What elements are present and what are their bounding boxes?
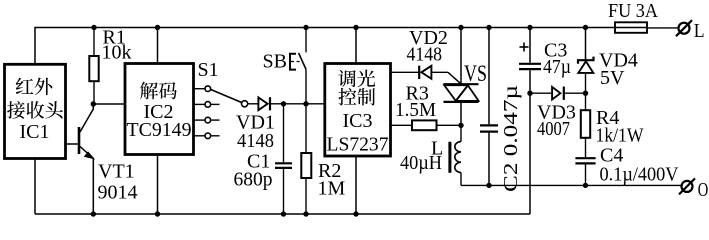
wire: C4 to output wire <box>585 165 587 186</box>
switch S1 contact 2 <box>205 102 211 108</box>
wire: IC2 pin stub row 4 <box>194 135 206 137</box>
switch S1 common pole <box>242 101 248 107</box>
terminal L circle <box>679 23 690 34</box>
wire: inductor to output wire <box>460 173 462 186</box>
svg-text:47µ: 47µ <box>543 56 571 78</box>
wire: triac to R3 node <box>460 102 462 125</box>
wire: SB to node <box>305 69 307 104</box>
resistor R1 <box>93 28 95 57</box>
inductor L core bar <box>448 142 451 173</box>
node: C2 top <box>486 25 491 30</box>
wire: node to inductor <box>460 125 462 141</box>
pushbutton SB actuator bracket <box>290 54 296 70</box>
svg-text:40µH: 40µH <box>400 152 442 174</box>
svg-text:VT1: VT1 <box>98 161 135 183</box>
label text "调光" (IC3 dim-light) <box>338 70 375 88</box>
resistor R4 <box>585 93 587 110</box>
transistor VT1 emitter <box>80 147 93 159</box>
thyristor VS bottom bar <box>444 101 479 103</box>
svg-text:L: L <box>694 20 705 42</box>
node: VD4 top <box>583 25 588 30</box>
capacitor C2 <box>488 28 490 125</box>
transistor VT1 emitter arrow <box>85 152 94 159</box>
node: VD1/C1 junction <box>281 101 286 106</box>
node: R3/triac/L junction <box>458 123 463 128</box>
diode VD2 cathode bar <box>418 66 420 79</box>
node: C2 bottom <box>486 183 491 188</box>
diode VD1 cathode bar <box>269 97 271 110</box>
node: SB top <box>303 25 308 30</box>
op-amp U? : IC1 infrared receiver box <box>5 64 66 158</box>
transistor VT1 base bar <box>78 127 81 154</box>
switch S1 contact 4 <box>205 133 211 139</box>
svg-text:680p: 680p <box>234 169 273 191</box>
label text "接收头" (IC1 receiver-head) <box>7 101 63 119</box>
wire: VD2 to triac gate <box>431 71 448 73</box>
wire: top rail to VD4 <box>585 28 587 61</box>
thyristor VS top bar <box>444 83 479 85</box>
wire: IC2 pin stub row 1 <box>194 88 206 90</box>
wire: C3 node to VD3 <box>530 92 552 94</box>
resistor R3 <box>412 120 437 130</box>
wire: left vertical from top rail to IC1 top pin <box>34 27 36 65</box>
svg-text:10k: 10k <box>102 42 132 64</box>
node: C1 ground <box>281 211 286 216</box>
diode VD2 triangle <box>421 66 431 79</box>
wire: output line to terminal O <box>461 184 682 186</box>
wire: fuse to terminal L <box>647 27 679 29</box>
terminal O circle <box>682 181 693 192</box>
capacitor C4 plates <box>575 157 595 159</box>
inductor L coil <box>455 142 461 173</box>
wire: triac gate diagonal <box>448 72 461 84</box>
node: IC2 top pin <box>155 25 160 30</box>
wire: S1 contact 2 stub <box>211 103 220 105</box>
node: R1/collector/IC2 junction <box>91 101 96 106</box>
capacitor C1 plates <box>275 162 292 164</box>
wire: top rail to SB <box>305 28 307 53</box>
wire: node to IC3 left edge <box>306 103 325 105</box>
wire: IC2 top pin <box>157 28 159 64</box>
node: R2 ground <box>303 211 308 216</box>
svg-text:C2 0.047µ: C2 0.047µ <box>500 85 522 192</box>
terminal L slash <box>676 20 692 36</box>
wire: IC2 pin stub row 3 <box>194 119 206 121</box>
wire: emitter to bottom rail <box>92 158 94 214</box>
zener VD4 bar with hooks <box>578 57 594 64</box>
pushbutton SB dashed link <box>291 61 302 63</box>
svg-text:S1: S1 <box>198 59 219 81</box>
IC U2: decoder IC2 TC9149 box <box>125 64 194 155</box>
pushbutton SB arm <box>299 53 306 69</box>
capacitor C3 plates <box>519 63 541 65</box>
svg-text:1k/1W: 1k/1W <box>596 125 644 147</box>
svg-text:4148: 4148 <box>237 130 274 152</box>
svg-text:5V: 5V <box>600 67 625 89</box>
wire: bottom ground rail <box>35 213 530 215</box>
svg-text:9014: 9014 <box>98 182 138 204</box>
svg-text:TC9149: TC9149 <box>127 119 192 141</box>
node: VD4/VD3/R4 junction <box>583 91 588 96</box>
fuse FU rect <box>615 22 647 33</box>
wire: VD1 to node <box>270 103 284 105</box>
svg-text:0.1µ/400V: 0.1µ/400V <box>600 164 680 186</box>
switch S1 arm <box>211 90 242 103</box>
wire: IC3 top pin <box>355 28 357 64</box>
svg-text:4148: 4148 <box>407 44 443 66</box>
svg-text:1M: 1M <box>318 178 346 200</box>
node: R1 top <box>91 25 96 30</box>
wire: VD3 to zener line <box>564 92 586 94</box>
IC U3: dimmer control IC3 LS7237 box <box>325 64 391 157</box>
wire: S1 contact 4 stub <box>211 135 220 137</box>
thyristor VS left triangle <box>444 85 468 101</box>
wire: IC3 bottom pin <box>355 156 357 214</box>
wire: node to node <box>284 103 307 105</box>
zener VD4 triangle <box>578 61 593 73</box>
wire: IC2 pin stub row 2 <box>194 103 206 105</box>
label text "红外" (IC1 red-outer) <box>16 78 53 96</box>
node: C4 output junction <box>583 183 588 188</box>
wire: top rail to triac <box>460 28 462 85</box>
wire: IC3 to R3 <box>391 124 413 126</box>
node: IC3 top pin <box>353 25 358 30</box>
label text "解码" (IC2 decode) <box>140 82 177 100</box>
node: C3 top <box>527 25 532 30</box>
switch S1 contact 1 <box>205 86 211 92</box>
wire: top rail down to C3 <box>529 28 531 63</box>
svg-text:FU 3A: FU 3A <box>608 0 659 22</box>
node: SB/R2 junction <box>303 101 308 106</box>
wire: top supply rail <box>35 27 615 29</box>
wire: S1 contact 3 stub <box>211 119 220 121</box>
svg-text:IC1: IC1 <box>20 121 50 143</box>
wire: VD4 to node <box>585 73 587 93</box>
wire: through fuse <box>615 27 647 29</box>
wire: junction to IC2 left edge <box>93 103 125 105</box>
diode VD1 triangle <box>258 97 267 110</box>
svg-text:SB: SB <box>263 51 287 73</box>
node: C3/VD3 junction <box>527 91 532 96</box>
diode VD3 triangle <box>552 87 560 100</box>
thyristor VS right triangle <box>456 85 479 101</box>
wire: IC1 bottom pin to bottom rail <box>34 159 36 215</box>
switch S1 contact 3 <box>205 117 211 123</box>
transistor VT1 base lead <box>66 143 80 145</box>
wire: C3 to bottom rail (crosses output wire) <box>529 70 531 214</box>
resistor R2 <box>305 104 307 153</box>
svg-text:4007: 4007 <box>537 118 570 140</box>
capacitor C3 plus sign <box>520 46 529 48</box>
wire: IC2 bottom pin <box>157 155 159 215</box>
diode VD3 cathode bar <box>563 87 565 100</box>
svg-text:VS: VS <box>464 61 487 86</box>
svg-text:LS7237: LS7237 <box>327 134 389 156</box>
wire: C1 to bottom rail <box>283 169 285 214</box>
node: triac top <box>458 25 463 30</box>
label text "控制" (IC3 control) <box>338 88 375 106</box>
node: IC3 ground <box>353 211 358 216</box>
node: IC2 ground pin dot <box>155 211 160 216</box>
svg-text:IC3: IC3 <box>343 110 373 132</box>
wire: IC3 to VD2 <box>391 71 419 73</box>
svg-text:O: O <box>698 179 709 201</box>
wire: S1 pole to VD1 <box>248 103 259 105</box>
transistor VT1 collector <box>80 104 93 132</box>
terminal O slash <box>679 178 695 194</box>
wire: node down to C1 <box>283 104 285 162</box>
svg-text:1.5M: 1.5M <box>395 99 436 121</box>
node: VT1 emitter ground dot <box>91 211 96 216</box>
